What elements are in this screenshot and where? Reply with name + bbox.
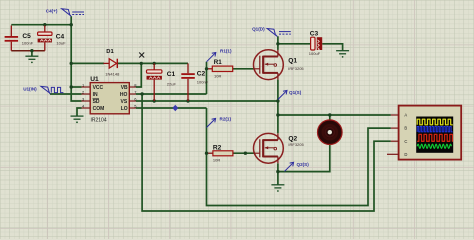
junction VCC pin1 branch (70, 85, 73, 88)
svg-text:C3: C3 (310, 30, 319, 37)
wire: +V top rail (11, 24, 71, 26)
wire: R2 right to Q2 gate (233, 152, 254, 154)
junction C1 bottom on VS wire (153, 99, 156, 102)
wire: supply vertical to U1 VCC/SD (71, 16, 81, 101)
svg-text:C5: C5 (22, 33, 31, 40)
wire: C5/C4 bottom red wire (11, 50, 45, 52)
junction ground tap C5/C4 (30, 49, 33, 52)
probe R1(1) (207, 48, 232, 61)
junction VS wire / Q1 source (276, 99, 279, 102)
trace C red (417, 134, 453, 141)
svg-text:22uF: 22uF (167, 82, 177, 87)
junction Q1 drain / C3 branch (276, 42, 279, 45)
junction node A / Q2 drain (276, 113, 279, 116)
svg-text:10R: 10R (213, 157, 220, 162)
junction C2 bottom on VS wire (186, 99, 189, 102)
svg-text:HO: HO (120, 92, 128, 98)
capacitor C3 100uF (309, 30, 322, 56)
junction motor top lead (328, 113, 331, 116)
junction R2 left lead (205, 152, 208, 155)
wire: Q1 drain from generator (277, 36, 279, 50)
wire: motor top lead (329, 115, 331, 120)
node marker (blue diamond) on LO wire (172, 105, 178, 112)
wire: R1 right to Q1 gate (233, 68, 254, 70)
svg-text:U1(IN): U1(IN) (23, 86, 37, 91)
svg-text:R1(1): R1(1) (220, 48, 232, 53)
svg-text:LO: LO (121, 106, 128, 112)
wire: motor bottom lead (278, 144, 330, 171)
svg-text:R2: R2 (213, 144, 222, 151)
wire: R1 left lead (207, 68, 213, 70)
ground (U1 COM) (71, 116, 84, 123)
svg-text:IN: IN (93, 92, 98, 98)
probe R2(1) (207, 117, 232, 128)
svg-text:C1: C1 (167, 71, 176, 78)
trace A yellow (417, 119, 453, 125)
svg-text:100uF: 100uF (309, 51, 321, 56)
generator U1(IN) pulse (23, 86, 63, 94)
trace B blue (417, 127, 452, 132)
wire: HO node to scope C (142, 94, 391, 211)
junction R2 right lead (244, 152, 247, 155)
motor (318, 120, 343, 145)
svg-text:100nF: 100nF (197, 79, 209, 84)
wire: Q2 source to ground (277, 163, 279, 185)
svg-text:C4(+): C4(+) (46, 8, 58, 13)
svg-text:IRF3205: IRF3205 (288, 142, 304, 147)
wire: D1 cathode to VB node (117, 62, 188, 64)
oscilloscope (387, 106, 461, 160)
junction D1 anode branch (70, 62, 73, 65)
svg-text:100nF: 100nF (22, 40, 34, 45)
wire: D1 anode branch (71, 62, 104, 64)
capacitor C2 (100nF) (181, 63, 208, 101)
probe Q1(S) (278, 90, 302, 99)
wire: ground stub under C5/C4 (31, 51, 33, 57)
wire: LO row (136, 107, 207, 109)
probe Q2(S) (285, 162, 310, 171)
capacitor C4 (polarized) (38, 26, 66, 51)
wire: VB node down to pin8 (136, 63, 142, 87)
junction Q2 source / ground (276, 170, 279, 173)
IC U1 IR2104 (82, 76, 138, 124)
generator C4(+) (46, 8, 84, 16)
ground (under C5/C4) (25, 56, 38, 63)
svg-text:Q1: Q1 (288, 58, 297, 65)
svg-text:C: C (404, 139, 407, 144)
junction VB node corner (140, 62, 143, 65)
trace D green (417, 144, 451, 148)
svg-text:IRF3205: IRF3205 (288, 66, 304, 71)
diode D1 1N4148 (103, 49, 120, 76)
junction C4 top on rail (43, 23, 46, 26)
junction C1 top on VB wire (153, 62, 156, 65)
svg-text:A: A (404, 113, 407, 118)
capacitor C5 (5, 26, 34, 51)
svg-text:D: D (404, 152, 407, 157)
transistor Q1 IRF3205 (254, 50, 305, 80)
wire: VCC pin1 branch (71, 86, 81, 88)
wire: VS row (136, 100, 278, 102)
wire: HO up to R1 left + probe stub (206, 62, 208, 94)
resistor R1 10R (212, 59, 232, 78)
svg-text:R1: R1 (214, 59, 222, 66)
junction rail / supply vertical (70, 23, 73, 26)
svg-text:VS: VS (121, 99, 128, 105)
svg-text:1N4148: 1N4148 (105, 71, 120, 76)
svg-text:10R: 10R (214, 74, 221, 79)
svg-text:Q1(D): Q1(D) (252, 27, 265, 32)
wire: Q1 source down through VS to Q2 drain (277, 80, 279, 134)
ground (Q2 source) (271, 185, 284, 192)
wire: node A row to scope A (278, 114, 391, 116)
capacitor C1 (22uF polarized) (147, 63, 177, 101)
svg-text:IR2104: IR2104 (91, 117, 107, 123)
wire: U1(IN) generator to pin2 (50, 93, 82, 95)
svg-text:10uF: 10uF (56, 40, 66, 45)
wire: COM to ground (77, 108, 82, 116)
svg-text:VCC: VCC (93, 85, 104, 91)
svg-text:VB: VB (121, 85, 128, 91)
svg-text:Q1(S): Q1(S) (289, 90, 302, 95)
svg-text:C2: C2 (197, 70, 206, 77)
wire: C3 left lead (278, 43, 311, 45)
junction HO wire / scope C branch (140, 92, 143, 95)
svg-text:R2(1): R2(1) (220, 117, 232, 122)
transistor Q2 IRF3205 (254, 133, 305, 163)
svg-text:D1: D1 (106, 49, 114, 55)
generator Q1(D) (252, 27, 291, 37)
wire: LO down to R2 and scope B (207, 108, 391, 206)
X marker (139, 53, 144, 58)
wire: HO row (136, 93, 207, 95)
resistor R2 10R (213, 144, 233, 162)
wire: C3 right lead to ground (322, 44, 342, 51)
wire: R2 left lead (207, 152, 213, 154)
svg-text:U1: U1 (90, 76, 99, 83)
svg-text:Q2(S): Q2(S) (297, 162, 310, 167)
svg-text:COM: COM (93, 106, 105, 112)
junction R1 left lead (205, 67, 208, 70)
svg-text:SD: SD (93, 99, 100, 105)
ground (C3) (336, 51, 349, 58)
svg-text:B: B (404, 126, 407, 131)
